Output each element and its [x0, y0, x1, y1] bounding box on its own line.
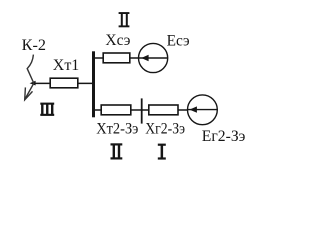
- svg-text:Ег2-Зэ: Ег2-Зэ: [202, 128, 246, 145]
- svg-text:К-2: К-2: [22, 37, 46, 54]
- svg-text:Хсэ: Хсэ: [105, 32, 130, 49]
- svg-text:Хт1: Хт1: [53, 57, 80, 74]
- svg-text:Есэ: Есэ: [167, 32, 190, 49]
- svg-text:Хт2-Зэ: Хт2-Зэ: [96, 120, 138, 137]
- svg-text:Хг2-Зэ: Хг2-Зэ: [145, 120, 185, 137]
